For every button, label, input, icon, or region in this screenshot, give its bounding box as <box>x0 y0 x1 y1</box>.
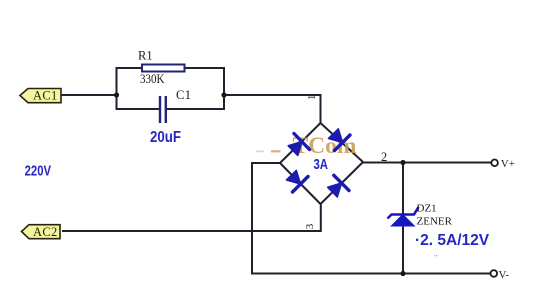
svg-text:.,: ., <box>434 250 438 258</box>
svg-text:3: 3 <box>304 223 316 229</box>
svg-text:AC1: AC1 <box>33 89 58 103</box>
svg-text:R1: R1 <box>138 49 153 63</box>
svg-text:V+: V+ <box>501 158 515 170</box>
svg-text:3A: 3A <box>314 157 329 173</box>
svg-text:DZ1: DZ1 <box>417 203 437 215</box>
svg-text:2: 2 <box>381 150 387 164</box>
svg-text:·2. 5A/12V: ·2. 5A/12V <box>415 232 490 249</box>
svg-text:V-: V- <box>499 269 510 281</box>
svg-text:1: 1 <box>307 95 318 100</box>
svg-text:ZENER: ZENER <box>417 216 453 228</box>
svg-text:C1: C1 <box>176 88 191 102</box>
svg-text:20uF: 20uF <box>150 129 181 146</box>
svg-text:330K: 330K <box>140 72 165 86</box>
svg-text:AC2: AC2 <box>33 225 58 239</box>
svg-text:220V: 220V <box>25 163 52 179</box>
